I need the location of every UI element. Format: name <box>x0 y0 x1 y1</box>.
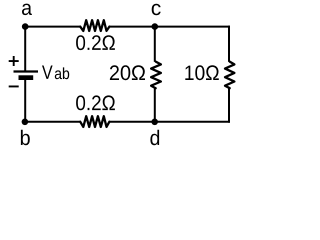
value label 20 ohm (middle resistor R3) <box>110 65 145 80</box>
resistor R2 0.2 ohm (bottom horizontal zigzag) <box>80 116 109 127</box>
resistor R3 20 ohm (vertical zigzag) <box>151 62 161 89</box>
wire: right side, top corner down to resistor R4 <box>228 26 230 62</box>
wire: bottom, resistor R2 through node d to bottom-right corner <box>109 121 230 123</box>
node label d <box>150 130 159 145</box>
wire: middle branch, node c down to resistor R3 <box>154 27 156 62</box>
resistor R4 10 ohm (vertical zigzag) <box>225 62 234 89</box>
battery minus sign <box>9 86 19 88</box>
resistor R1 0.2 ohm (top horizontal zigzag) <box>80 20 109 31</box>
wire: left, node a down to battery + plate <box>24 27 26 72</box>
wire: right side, resistor R4 down to bottom corner <box>228 88 230 123</box>
node c (junction dot) <box>152 23 159 30</box>
node b (junction dot) <box>22 119 29 126</box>
node label b <box>21 130 30 145</box>
wire: top, resistor R1 through node c to top-right corner <box>109 26 230 28</box>
battery Vab: long thin positive plate <box>14 70 39 72</box>
node label a <box>22 4 32 16</box>
wire: left, battery - plate down to node b <box>24 80 26 122</box>
battery value label Vab : ab subscript <box>55 67 69 79</box>
battery plus sign: vertical bar <box>13 56 15 66</box>
battery plus sign: horizontal bar <box>9 60 19 62</box>
battery value label Vab : V <box>42 66 53 79</box>
value label 0.2 ohm (bottom resistor R2) <box>76 95 115 110</box>
wire: middle branch, resistor R3 down to node d <box>154 88 156 122</box>
node d (junction dot) <box>151 119 158 126</box>
node label c <box>152 4 161 16</box>
node a (junction dot) <box>22 23 29 30</box>
value label 10 ohm (right resistor R4) <box>185 65 219 80</box>
wire: top, node a to resistor R1 <box>25 26 80 28</box>
wire: bottom, node b to resistor R2 <box>25 121 81 123</box>
battery Vab: short thick negative plate <box>19 75 34 80</box>
value label 0.2 ohm (top resistor R1) <box>76 35 115 50</box>
